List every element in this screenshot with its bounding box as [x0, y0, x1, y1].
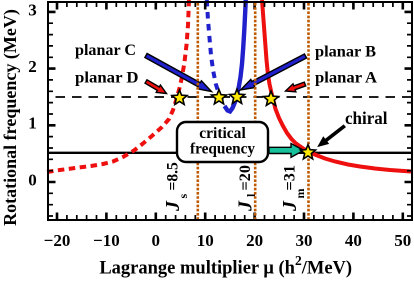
svg-text:3: 3 [28, 0, 37, 19]
svg-text:chiral: chiral [345, 108, 388, 128]
arrow planar D [145, 80, 167, 94]
svg-text:s: s [176, 194, 190, 199]
svg-text:=8.5: =8.5 [165, 162, 182, 191]
blue solid curve planar B branch [225, 0, 246, 112]
svg-text:−10: −10 [93, 231, 120, 250]
svg-text:1: 1 [28, 114, 37, 133]
teal critical-frequency arrow [269, 144, 304, 158]
y axis minor ticks [49, 23, 412, 216]
dashed horizontal line y=1.5MeV [49, 96, 412, 98]
critical frequency box [177, 122, 268, 162]
svg-text:30: 30 [296, 231, 313, 250]
vertical dotted line Jl [254, 3, 257, 219]
svg-text:10: 10 [197, 231, 214, 250]
star 3 (planar B) [229, 89, 244, 103]
arrow chiral [318, 125, 345, 147]
arrow planar B [241, 54, 307, 90]
label J_l = 20 [235, 165, 259, 212]
star 5 (chiral) [300, 145, 315, 159]
arrow planar C [145, 54, 212, 92]
svg-text:J: J [235, 200, 257, 212]
plot frame [48, 2, 412, 220]
vertical dotted line Jm [307, 3, 310, 219]
svg-text:2: 2 [28, 57, 37, 76]
svg-text:Rotational frequency (MeV): Rotational frequency (MeV) [0, 9, 21, 226]
svg-text:0: 0 [152, 231, 161, 250]
svg-text:J: J [162, 200, 184, 212]
svg-text:40: 40 [345, 231, 362, 250]
svg-text:=20: =20 [237, 165, 254, 191]
y tick labels [28, 0, 37, 189]
y axis major ticks [49, 12, 412, 182]
vertical dotted line Js [197, 3, 200, 219]
label J_m = 31 [279, 165, 307, 212]
red dashed curve planar D/C branch [47, 0, 189, 172]
red solid curve chiral branch [262, 0, 411, 172]
x tick labels [44, 231, 412, 250]
blue dashed curve planar C branch [207, 0, 225, 106]
svg-text:frequency: frequency [190, 141, 255, 158]
svg-text:20: 20 [246, 231, 263, 250]
svg-text:planar C: planar C [75, 42, 136, 59]
label J_s = 8.5 [162, 162, 190, 212]
x axis minor ticks [67, 3, 393, 220]
svg-text:−20: −20 [44, 231, 71, 250]
svg-text:critical: critical [199, 125, 246, 142]
x axis major ticks [57, 3, 403, 220]
svg-text:planar D: planar D [75, 70, 139, 87]
star 1 (planar D) [172, 90, 187, 104]
star 4 (planar A) [263, 91, 278, 105]
star 2 (planar C) [211, 90, 226, 104]
svg-text:planar B: planar B [315, 44, 376, 61]
svg-text:J: J [279, 200, 301, 212]
arrow planar A [286, 82, 306, 92]
svg-text:=31: =31 [282, 165, 299, 191]
svg-text:planar A: planar A [315, 70, 378, 87]
svg-text:50: 50 [394, 231, 411, 250]
solid horizontal critical-frequency line [49, 152, 412, 154]
svg-text:0: 0 [28, 170, 37, 189]
